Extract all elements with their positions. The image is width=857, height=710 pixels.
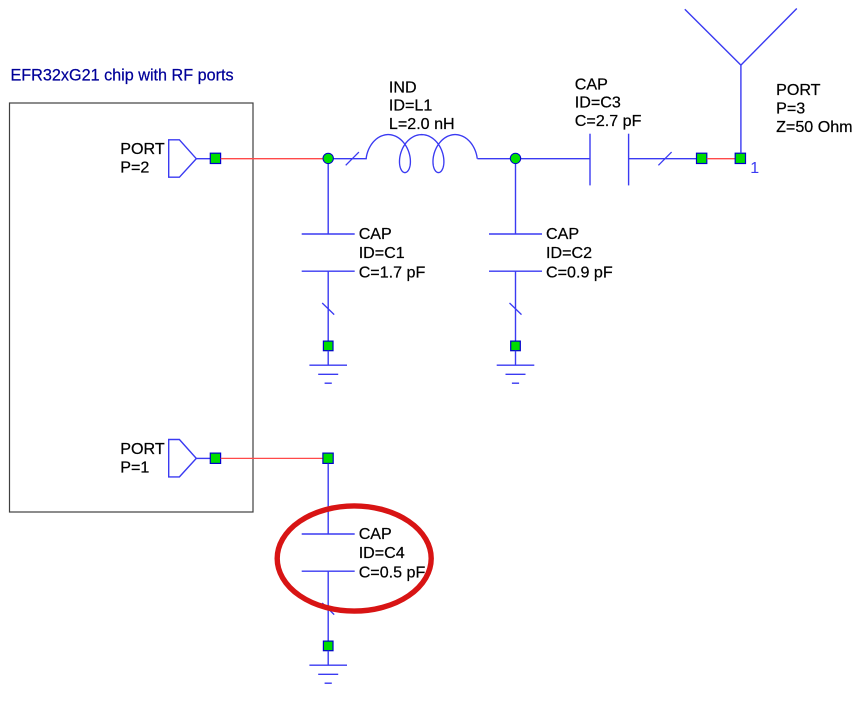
svg-text:EFR32xG21 chip with RF ports: EFR32xG21 chip with RF ports xyxy=(11,67,234,85)
svg-text:P=1: P=1 xyxy=(120,458,149,476)
svg-text:C=1.7 pF: C=1.7 pF xyxy=(359,263,426,281)
svg-text:L=2.0 nH: L=2.0 nH xyxy=(389,115,455,133)
svg-text:P=2: P=2 xyxy=(120,159,149,177)
svg-text:PORT: PORT xyxy=(776,81,821,99)
svg-text:C=0.5 pF: C=0.5 pF xyxy=(359,563,426,581)
svg-text:C=0.9 pF: C=0.9 pF xyxy=(546,263,613,281)
svg-text:PORT: PORT xyxy=(120,140,165,158)
svg-text:Z=50 Ohm: Z=50 Ohm xyxy=(776,118,852,136)
svg-text:1: 1 xyxy=(750,160,759,177)
svg-text:ID=C3: ID=C3 xyxy=(575,94,621,112)
svg-text:IND: IND xyxy=(389,79,417,97)
svg-text:CAP: CAP xyxy=(546,225,579,243)
svg-text:ID=C1: ID=C1 xyxy=(359,244,405,262)
svg-text:PORT: PORT xyxy=(120,440,165,458)
svg-text:C=2.7 pF: C=2.7 pF xyxy=(575,112,642,130)
svg-text:CAP: CAP xyxy=(575,75,608,93)
svg-text:ID=C4: ID=C4 xyxy=(359,544,405,562)
svg-text:ID=L1: ID=L1 xyxy=(389,97,432,115)
svg-text:CAP: CAP xyxy=(359,225,392,243)
svg-text:CAP: CAP xyxy=(359,525,392,543)
svg-text:P=3: P=3 xyxy=(776,100,805,118)
svg-text:ID=C2: ID=C2 xyxy=(546,244,592,262)
